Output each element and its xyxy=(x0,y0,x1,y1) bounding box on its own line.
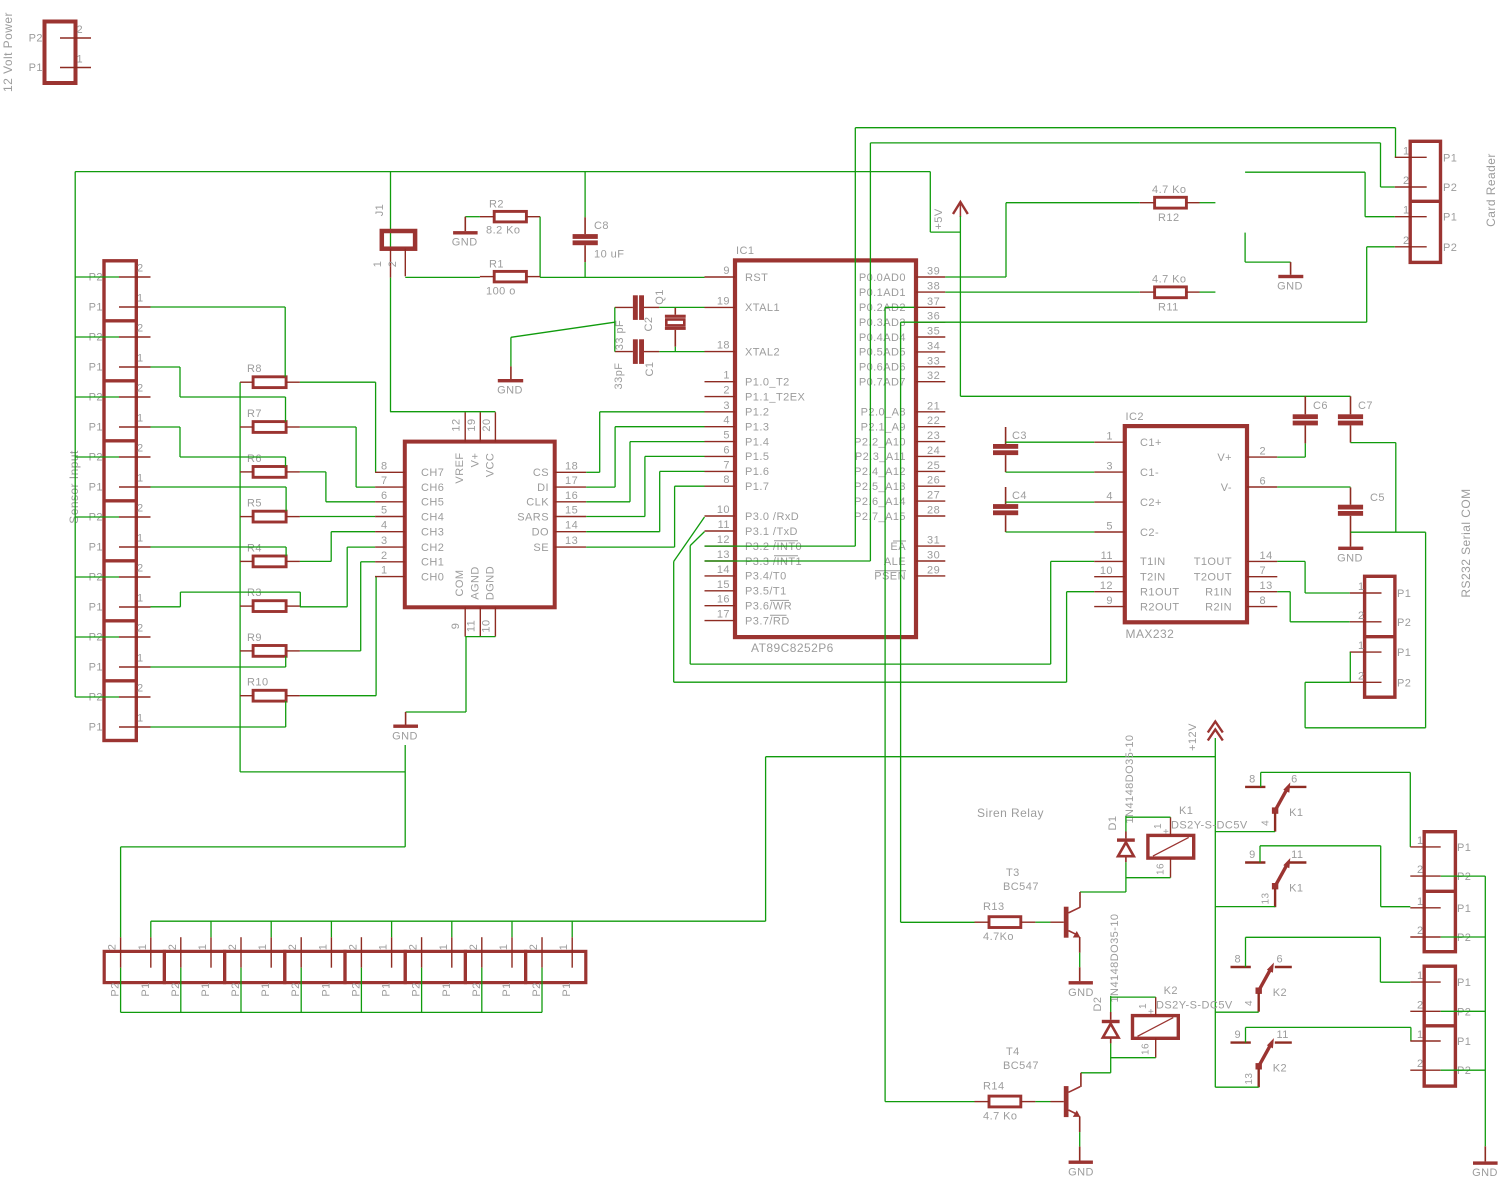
svg-text:1: 1 xyxy=(558,944,570,951)
wire C8 bottom to RST net xyxy=(584,262,586,277)
svg-text:4: 4 xyxy=(723,415,730,427)
svg-text:16: 16 xyxy=(1141,1043,1152,1055)
IC2 pin 12 R1OUT xyxy=(1094,580,1179,598)
wire XTAL1 net xyxy=(659,306,704,308)
svg-text:12: 12 xyxy=(451,418,463,431)
svg-text:4: 4 xyxy=(1106,491,1113,503)
svg-text:3: 3 xyxy=(381,535,388,547)
svg-text:P1.6: P1.6 xyxy=(745,466,769,478)
svg-text:16: 16 xyxy=(565,490,578,502)
wire bottom P1 bus to +12V xyxy=(151,757,1216,922)
svg-text:100 o: 100 o xyxy=(486,286,516,298)
svg-text:+5V: +5V xyxy=(933,208,945,229)
svg-text:13: 13 xyxy=(565,535,578,547)
svg-text:1: 1 xyxy=(1417,970,1424,982)
wire R8 to ADC CH7 xyxy=(300,382,376,472)
svg-text:1: 1 xyxy=(77,54,84,66)
svg-text:GND: GND xyxy=(1337,553,1363,565)
svg-text:R7: R7 xyxy=(247,408,262,420)
svg-text:2: 2 xyxy=(1417,925,1424,937)
svg-text:30: 30 xyxy=(927,550,940,562)
svg-text:P1: P1 xyxy=(1457,1036,1471,1048)
svg-text:AGND: AGND xyxy=(469,566,481,600)
svg-text:1: 1 xyxy=(1417,835,1424,847)
wire bottom connector 3 P2 to lower bus xyxy=(240,968,242,1013)
wire card P2.2 net xyxy=(1367,247,1395,322)
svg-text:P1: P1 xyxy=(140,982,152,996)
relay output pin 2 P2 y937 xyxy=(1410,925,1471,944)
svg-text:2: 2 xyxy=(468,944,480,951)
svg-text:11: 11 xyxy=(465,620,477,632)
svg-text:2: 2 xyxy=(381,550,388,562)
svg-text:6: 6 xyxy=(1260,476,1267,488)
wire K1 set1 common to +12V xyxy=(1215,831,1275,833)
svg-text:1: 1 xyxy=(257,944,269,951)
svg-text:1: 1 xyxy=(137,413,144,425)
svg-text:P1: P1 xyxy=(89,482,103,494)
IC1 pin 5 P1.4 xyxy=(705,430,770,449)
wire bottom connector 1 P1 to bus xyxy=(150,921,152,937)
svg-text:Sensor Input: Sensor Input xyxy=(67,450,81,524)
svg-text:P1: P1 xyxy=(89,602,103,614)
svg-text:5: 5 xyxy=(1106,521,1113,533)
IC1 pin 34 P0.5AD5 xyxy=(859,340,945,358)
bottom connector 6 pins xyxy=(408,937,453,996)
wire R12 right stub xyxy=(1200,202,1216,204)
svg-text:CH2: CH2 xyxy=(421,542,444,554)
svg-text:P3.1 /TxD: P3.1 /TxD xyxy=(745,526,798,538)
svg-text:6: 6 xyxy=(1277,954,1284,966)
svg-text:P2: P2 xyxy=(110,982,122,996)
wire RS232 second port gnd xyxy=(1305,652,1350,728)
svg-text:1: 1 xyxy=(137,473,144,485)
resistor R6 xyxy=(240,453,300,477)
svg-text:C1+: C1+ xyxy=(1140,437,1162,449)
svg-text:R2OUT: R2OUT xyxy=(1140,601,1180,613)
svg-text:2: 2 xyxy=(137,443,144,455)
IC ADC box xyxy=(405,442,555,608)
svg-text:39: 39 xyxy=(927,266,940,278)
wire P1.8 to R10 node xyxy=(151,701,286,727)
svg-text:7: 7 xyxy=(381,475,388,487)
svg-text:1: 1 xyxy=(137,593,144,605)
ADC pin 18 CS xyxy=(533,460,586,479)
capacitor C3 xyxy=(993,427,1027,472)
svg-text:12: 12 xyxy=(1100,580,1113,592)
svg-text:2: 2 xyxy=(227,944,239,951)
svg-text:2: 2 xyxy=(1403,235,1410,247)
svg-text:GND: GND xyxy=(1068,987,1094,999)
relay contact K2 set1 pins 8 6 4 xyxy=(1231,954,1292,1012)
svg-text:C6: C6 xyxy=(1313,400,1328,412)
resistor R13 xyxy=(975,901,1064,943)
label RS232 Serial COM xyxy=(1459,488,1473,597)
svg-text:P2: P2 xyxy=(1443,242,1457,254)
wire +12V stem xyxy=(1214,738,1216,1087)
wire P0.2 down to R14 xyxy=(885,307,974,1101)
wire XTAL2 net xyxy=(659,347,704,352)
svg-text:R5: R5 xyxy=(247,498,262,510)
wire R1 to RST xyxy=(540,276,704,278)
wire R13 to T3 base xyxy=(1035,921,1050,923)
wire bottom connector 4 P2 to lower bus xyxy=(300,968,302,1013)
IC1 pin 4 P1.3 xyxy=(705,415,770,434)
svg-text:R3: R3 xyxy=(247,587,262,599)
svg-text:P1: P1 xyxy=(89,662,103,674)
wire bottom connector 3 P1 to bus xyxy=(270,921,272,937)
wire +5V rail top xyxy=(75,172,960,233)
svg-text:1: 1 xyxy=(137,944,149,951)
svg-text:2: 2 xyxy=(77,24,84,36)
crystal Q1 xyxy=(654,289,686,346)
svg-text:P2: P2 xyxy=(1397,677,1411,689)
svg-text:2: 2 xyxy=(137,323,144,335)
ADC pin 20 VCC xyxy=(481,412,497,477)
IC1 pin 16 P3.6/WR xyxy=(705,594,793,613)
svg-text:5: 5 xyxy=(381,505,388,517)
relay coil K1 DS2Y-S-DC5V xyxy=(1148,805,1248,878)
svg-text:13: 13 xyxy=(1260,580,1273,592)
svg-text:CH4: CH4 xyxy=(421,511,444,523)
diode D2 1N4148DO35-10 xyxy=(1092,913,1121,1043)
svg-text:P1: P1 xyxy=(1443,212,1457,224)
svg-text:10 uF: 10 uF xyxy=(594,249,624,261)
wire R14 to T4 base xyxy=(1035,1101,1050,1103)
svg-text:P1: P1 xyxy=(1397,588,1411,600)
IC2 pin 9 R2OUT xyxy=(1094,595,1179,613)
svg-text:P1: P1 xyxy=(89,302,103,314)
connector relay outputs A xyxy=(1424,832,1455,952)
IC1 pin 38 P0.1AD1 xyxy=(859,281,945,299)
wire P3.0 to MAX232 R1OUT xyxy=(674,517,1094,682)
svg-text:17: 17 xyxy=(565,475,578,487)
relay contact K1 set2 pins 9 11 13 xyxy=(1245,849,1306,907)
IC1 pin 24 P2.3_A11 xyxy=(855,445,945,463)
ADC pin 17 DI xyxy=(537,475,586,494)
svg-text:8: 8 xyxy=(723,474,730,486)
svg-text:P1: P1 xyxy=(260,982,272,996)
svg-text:RST: RST xyxy=(745,272,768,284)
sensor block 7 pins xyxy=(89,623,151,674)
svg-text:P2: P2 xyxy=(1457,932,1471,944)
ADC pin 5 CH4 xyxy=(375,505,444,524)
wire bottom P2 gnd bus xyxy=(121,847,542,1013)
IC1 pin 31 EA xyxy=(890,535,945,553)
svg-text:C2+: C2+ xyxy=(1140,497,1162,509)
svg-text:2: 2 xyxy=(723,385,730,397)
wire P0.3 to card reader P2.2 and down to R13 xyxy=(901,322,1367,922)
svg-text:18: 18 xyxy=(565,460,578,472)
svg-text:T1IN: T1IN xyxy=(1140,556,1166,568)
svg-text:2: 2 xyxy=(137,563,144,575)
relay coil K2 DS2Y-S-DC5V xyxy=(1133,985,1233,1058)
wire +5V stem down to C6/C7 line xyxy=(960,216,1350,396)
svg-text:R10: R10 xyxy=(247,677,269,689)
svg-text:10: 10 xyxy=(1100,565,1113,577)
svg-text:P1.1_T2EX: P1.1_T2EX xyxy=(745,391,806,403)
IC1 pin 26 P2.5_A13 xyxy=(854,475,945,493)
svg-text:P2: P2 xyxy=(471,982,483,996)
wire P1.7 to R9 node xyxy=(151,656,286,667)
sensor block 4 pins xyxy=(89,443,151,494)
svg-text:19: 19 xyxy=(717,295,730,307)
capacitor C8 xyxy=(573,217,625,262)
svg-text:17: 17 xyxy=(717,609,730,621)
svg-text:DGND: DGND xyxy=(484,566,496,600)
wire K2 set1 common to +12V xyxy=(1215,1011,1258,1013)
svg-text:3: 3 xyxy=(723,400,730,412)
wire R6 to ADC CH5 xyxy=(300,472,375,502)
wire K1 coil bottom to T3 collector xyxy=(1080,862,1171,892)
wire K2 coil bottom to T4 collector xyxy=(1081,1043,1156,1072)
wire J1 vertical xyxy=(390,172,392,412)
svg-text:4.7 Ko: 4.7 Ko xyxy=(983,1111,1018,1123)
relay output pin 2 P2 y1070 xyxy=(1410,1058,1471,1077)
wire P1.4 to R5 node xyxy=(151,487,287,511)
wire V- to C5 xyxy=(1277,486,1350,488)
IC1 pin 28 P2.7_A15 xyxy=(854,505,945,523)
resistor R11 xyxy=(1140,274,1200,314)
IC1 pin 36 P0.3AD3 xyxy=(859,311,945,329)
wire bottom connector 5 P1 to bus xyxy=(391,921,393,937)
svg-text:1: 1 xyxy=(1358,581,1365,593)
wire P1.1 to R8 node xyxy=(151,307,286,377)
svg-text:D1: D1 xyxy=(1107,816,1119,831)
ADC pin 10 DGND xyxy=(480,566,496,637)
ADC pin 11 AGND xyxy=(465,566,481,636)
svg-text:P3.6/WR: P3.6/WR xyxy=(745,601,792,613)
svg-text:15: 15 xyxy=(565,505,578,517)
ADC pin 12 VREF xyxy=(451,412,467,483)
svg-text:6: 6 xyxy=(381,490,388,502)
wire bottom connector 6 P2 to lower bus xyxy=(421,968,423,1013)
wire P0.0 to R12 xyxy=(945,203,1140,277)
ground GND at R2 xyxy=(452,217,478,249)
wire bottom connector 5 P2 to lower bus xyxy=(360,968,362,1013)
sensor block 1 pins xyxy=(89,263,151,314)
svg-text:GND: GND xyxy=(497,385,523,397)
svg-text:1: 1 xyxy=(1417,1029,1424,1041)
wire P1.3 to R6 node xyxy=(151,427,286,467)
svg-text:P2: P2 xyxy=(170,982,182,996)
svg-text:4: 4 xyxy=(381,520,388,532)
svg-text:P1.7: P1.7 xyxy=(745,481,769,493)
svg-text:2: 2 xyxy=(1417,864,1424,876)
IC1 pin 39 P0.0AD0 xyxy=(859,266,945,284)
wire ADC to IC1 P1.2 xyxy=(586,412,704,473)
svg-text:R1OUT: R1OUT xyxy=(1140,587,1180,599)
IC1 pin 19 XTAL1 xyxy=(705,295,781,314)
relay output pin 1 P1 y846 xyxy=(1410,835,1471,854)
svg-text:BC547: BC547 xyxy=(1003,1060,1039,1072)
svg-text:P0.5AD5: P0.5AD5 xyxy=(859,347,906,359)
svg-text:2: 2 xyxy=(1417,999,1424,1011)
IC1 pin 33 P0.6AD6 xyxy=(859,355,945,373)
svg-text:P2.4_A12: P2.4_A12 xyxy=(854,466,906,478)
svg-text:11: 11 xyxy=(1291,849,1303,861)
capacitor C6 xyxy=(1293,396,1328,443)
svg-text:23: 23 xyxy=(927,430,940,442)
svg-text:8: 8 xyxy=(1260,595,1267,607)
wire K2 coil top node xyxy=(1111,996,1156,1012)
svg-text:P1: P1 xyxy=(1397,647,1411,659)
svg-text:P1: P1 xyxy=(89,362,103,374)
svg-text:P2.2_A10: P2.2_A10 xyxy=(854,436,906,448)
svg-text:T1OUT: T1OUT xyxy=(1194,556,1232,568)
wire R2 right down to R1 node xyxy=(539,217,541,278)
svg-text:R12: R12 xyxy=(1158,212,1180,224)
svg-text:2: 2 xyxy=(1417,1058,1424,1070)
svg-text:CH0: CH0 xyxy=(421,571,444,583)
wire C5 gnd junction xyxy=(1305,532,1426,728)
svg-text:ALE: ALE xyxy=(884,556,906,568)
RS232 pin 1 P1 y593 xyxy=(1350,581,1412,600)
wire bottom connector 8 P2 to lower bus xyxy=(541,968,543,1013)
svg-text:XTAL2: XTAL2 xyxy=(745,346,780,358)
ADC pin 1 CH0 xyxy=(375,565,444,584)
wire card P1.2 net xyxy=(1245,172,1395,217)
capacitor C4 xyxy=(993,487,1027,532)
label Siren Relay xyxy=(977,806,1044,820)
wire sensor P2.7 to bus xyxy=(75,636,119,638)
svg-text:2: 2 xyxy=(1358,610,1365,622)
ADC pin 15 SARS xyxy=(517,505,586,524)
svg-text:18: 18 xyxy=(717,340,730,352)
wire K1 coil top node xyxy=(1126,816,1171,832)
wire sensor P2.3 to bus xyxy=(75,396,119,398)
svg-text:AT89C8252P6: AT89C8252P6 xyxy=(751,641,834,655)
svg-text:1: 1 xyxy=(1403,145,1410,157)
svg-text:13: 13 xyxy=(717,549,730,561)
svg-text:13: 13 xyxy=(1261,892,1272,904)
wire relay outputs P2 gnd bus xyxy=(1441,876,1486,1146)
wire P1.2 to R7 node xyxy=(151,367,286,422)
wire K2 set1 NC to P1c xyxy=(1246,937,1411,982)
svg-text:27: 27 xyxy=(927,490,940,502)
svg-text:2: 2 xyxy=(528,944,540,951)
wire C7 bottom to gnd net xyxy=(1351,443,1396,533)
label Sensor Input xyxy=(67,450,81,524)
svg-text:P3.4/T0: P3.4/T0 xyxy=(745,571,787,583)
bottom connector 1 pins xyxy=(107,937,152,996)
svg-text:14: 14 xyxy=(1260,550,1273,562)
svg-text:2: 2 xyxy=(347,944,359,951)
resistor R10 xyxy=(240,677,300,701)
card reader pin 1 P1 y157 xyxy=(1395,145,1458,164)
svg-text:+12V: +12V xyxy=(1187,723,1199,751)
svg-text:36: 36 xyxy=(927,311,940,323)
resistor R4 xyxy=(240,542,300,566)
connector bottom row blocks xyxy=(104,951,586,982)
svg-text:26: 26 xyxy=(927,475,940,487)
svg-text:V+: V+ xyxy=(1217,452,1232,464)
svg-text:+: + xyxy=(1148,1007,1154,1018)
wire crystal caps left link xyxy=(614,307,616,351)
IC1 pin 1 P1.0_T2 xyxy=(705,370,790,389)
svg-text:14: 14 xyxy=(717,564,730,576)
connector RS232 Serial COM xyxy=(1365,576,1395,697)
resistor R3 xyxy=(240,587,300,611)
svg-text:C5: C5 xyxy=(1370,492,1385,504)
svg-text:P2: P2 xyxy=(29,33,43,45)
connector relay outputs B xyxy=(1424,966,1455,1086)
wire sensor P2 bus xyxy=(74,172,76,697)
ADC pin 8 CH7 xyxy=(375,460,444,479)
svg-text:K2: K2 xyxy=(1273,1063,1287,1075)
wire P1.5 to R4 node xyxy=(151,547,287,556)
wire K2 set2 common to +12V xyxy=(1215,1086,1258,1088)
power +5V symbol xyxy=(933,202,968,230)
bottom connector 8 pins xyxy=(528,937,573,996)
IC1 pin 30 ALE xyxy=(884,550,945,568)
svg-text:COM: COM xyxy=(454,569,466,596)
IC1 pin 25 P2.4_A12 xyxy=(854,460,945,478)
wire sensor P2.8 to bus xyxy=(75,696,119,698)
svg-text:R8: R8 xyxy=(247,363,262,375)
svg-text:T2IN: T2IN xyxy=(1140,572,1166,584)
IC1 pin 21 P2.0_A8 xyxy=(861,400,946,418)
relay output pin 1 P1 y982 xyxy=(1410,970,1471,989)
IC1 pin 14 P3.4/T0 xyxy=(705,564,787,583)
svg-text:VREF: VREF xyxy=(454,452,466,483)
svg-text:P2: P2 xyxy=(1457,1065,1471,1077)
ground GND bottom right xyxy=(1472,1146,1498,1179)
svg-text:R11: R11 xyxy=(1158,302,1179,314)
svg-text:2: 2 xyxy=(137,623,144,635)
svg-text:R1IN: R1IN xyxy=(1205,587,1232,599)
svg-text:Card Reader: Card Reader xyxy=(1484,153,1498,227)
svg-text:C8: C8 xyxy=(594,220,609,232)
svg-text:T4: T4 xyxy=(1006,1046,1020,1058)
ADC pin 4 CH3 xyxy=(375,520,444,539)
svg-text:7: 7 xyxy=(1260,565,1267,577)
wire R1IN to RS232 P2 xyxy=(1277,592,1349,622)
svg-text:P2: P2 xyxy=(1457,871,1471,883)
resistor R14 xyxy=(975,1081,1064,1123)
IC1 pin 12 P3.2 xyxy=(705,534,803,553)
svg-text:C2-: C2- xyxy=(1140,527,1159,539)
svg-text:P2.0_A8: P2.0_A8 xyxy=(861,407,906,419)
svg-text:R13: R13 xyxy=(983,901,1005,913)
svg-text:12: 12 xyxy=(717,534,730,546)
svg-text:DI: DI xyxy=(537,482,549,494)
svg-text:6: 6 xyxy=(1291,773,1298,785)
bottom connector 7 pins xyxy=(468,937,513,996)
wire P1.6 to R3 node xyxy=(151,592,301,607)
svg-text:21: 21 xyxy=(927,400,940,412)
svg-text:33 pF: 33 pF xyxy=(614,320,626,350)
svg-text:DS2Y-S-DC5V: DS2Y-S-DC5V xyxy=(1171,820,1248,832)
svg-text:P0.2AD2: P0.2AD2 xyxy=(859,302,906,314)
svg-text:P2: P2 xyxy=(1443,182,1457,194)
IC U IC2 MAX232 box xyxy=(1125,411,1247,641)
resistor R1 xyxy=(480,259,540,298)
ground GND at crystal xyxy=(497,366,523,396)
IC2 pin 1 C1+ xyxy=(1094,431,1162,449)
ADC pin 2 CH1 xyxy=(375,550,444,569)
IC1 pin 37 P0.2AD2 xyxy=(859,296,945,314)
svg-text:V-: V- xyxy=(1221,482,1232,494)
relay output pin 2 P2 y1011 xyxy=(1410,999,1471,1018)
svg-text:1: 1 xyxy=(1403,205,1410,217)
svg-text:C4: C4 xyxy=(1012,490,1027,502)
jumper J1 xyxy=(372,204,415,278)
svg-text:1N4148DO35-10: 1N4148DO35-10 xyxy=(1124,734,1136,823)
IC1 pin 13 P3.3 xyxy=(705,549,803,568)
svg-text:P3.3 /INT1: P3.3 /INT1 xyxy=(745,556,802,568)
svg-text:1N4148DO35-10: 1N4148DO35-10 xyxy=(1109,913,1121,1002)
IC1 pin 7 P1.6 xyxy=(705,459,770,478)
